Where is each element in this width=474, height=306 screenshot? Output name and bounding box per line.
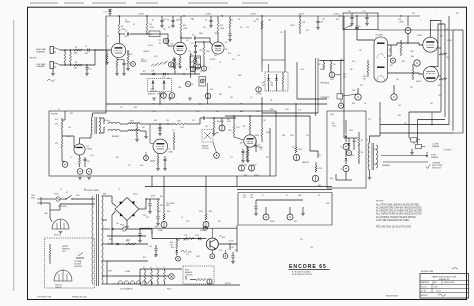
resistor R33 emitter	[79, 155, 81, 158]
svg-text:J7: J7	[262, 195, 264, 197]
jack bias test J9	[176, 256, 181, 261]
svg-text:C49: C49	[310, 247, 313, 249]
svg-text:YEL: YEL	[116, 223, 119, 225]
svg-text:F1: F1	[60, 189, 62, 191]
svg-text:+: +	[420, 19, 421, 21]
svg-text:GND LUG: GND LUG	[55, 285, 63, 287]
wire to tone stack	[197, 37, 211, 39]
transistor Q1	[74, 144, 85, 155]
capacitor C40	[232, 252, 234, 255]
capacitor C38 disc circle	[407, 16, 409, 26]
svg-text:R66: R66	[134, 107, 137, 109]
capacitor C4 cathode bypass	[122, 62, 125, 64]
svg-text:C3: C3	[340, 169, 342, 171]
svg-text:C19: C19	[68, 127, 71, 129]
tone stack resistors	[203, 46, 205, 56]
svg-text:C10: C10	[188, 51, 191, 53]
jack PI lower	[391, 94, 397, 100]
svg-text:+ C5: + C5	[103, 12, 107, 14]
wire V2 plate out	[180, 36, 182, 38]
svg-text:J7: J7	[107, 36, 109, 38]
wire filament right	[140, 275, 169, 277]
pot P4 presence	[337, 94, 343, 100]
resistor R32 47K	[61, 140, 63, 148]
svg-text:R72: R72	[456, 13, 459, 15]
wire filament bottom	[140, 284, 240, 286]
svg-text:4.7: 4.7	[70, 157, 72, 159]
resistor R28 470K	[295, 147, 297, 153]
wire T1 top	[92, 113, 94, 117]
svg-text:4700: 4700	[363, 76, 367, 78]
tone pot TREBLE	[201, 66, 206, 71]
svg-text:C24: C24	[298, 110, 301, 112]
svg-text:J8: J8	[286, 195, 288, 197]
svg-text:C17: C17	[230, 157, 233, 159]
svg-text:CR14: CR14	[126, 240, 130, 242]
pot P8	[239, 165, 245, 171]
svg-text:R42: R42	[402, 61, 405, 63]
wire recovery to grid	[186, 123, 200, 125]
svg-text:S3: S3	[318, 195, 320, 197]
wire low-gain row	[60, 64, 95, 66]
svg-text:ALL DIODES 1N4148 UNLESS NOTED: ALL DIODES 1N4148 UNLESS NOTED	[376, 216, 416, 219]
svg-text:R34: R34	[336, 19, 339, 21]
svg-text:.047: .047	[243, 197, 246, 199]
svg-text:INPUTS: INPUTS	[30, 58, 38, 60]
svg-text:R68: R68	[240, 111, 243, 113]
resistor R52	[126, 243, 136, 245]
svg-text:+: +	[345, 134, 346, 136]
svg-text:+: +	[149, 248, 150, 250]
fuse F2	[122, 227, 126, 231]
svg-text:R23: R23	[240, 104, 243, 106]
svg-text:C47: C47	[343, 74, 346, 76]
svg-text:NO. B 500653-FX (EXPORT): NO. B 500653-FX (EXPORT)	[292, 274, 313, 276]
capacitor C7 bypass	[172, 58, 175, 60]
transformer T3 core	[96, 194, 98, 286]
wire bus x452	[448, 16, 450, 125]
wire switching bus	[140, 73, 200, 75]
dashed box hum balance	[183, 266, 214, 284]
wire nest h1	[409, 111, 441, 113]
wire y161 inner	[150, 160, 155, 162]
photoresistor LDR1b	[276, 88, 278, 91]
pot P2 tone	[161, 93, 167, 99]
svg-text:PILOT: PILOT	[167, 289, 171, 291]
svg-text:R12: R12	[168, 27, 171, 29]
wire jack feeds	[409, 138, 411, 140]
svg-text:EXPORT: EXPORT	[62, 246, 68, 248]
svg-text:CR1: CR1	[151, 71, 154, 73]
capacitor C2 to ground	[86, 65, 88, 67]
pot hum circle	[390, 58, 395, 63]
svg-text:Q2: Q2	[191, 84, 193, 86]
wire reverb lines	[120, 123, 128, 125]
resistor R6 cathode	[116, 58, 118, 60]
transformer T2 core	[371, 143, 373, 170]
svg-text:R31: R31	[55, 119, 58, 121]
photoresistor LDR1	[268, 88, 270, 91]
wire T2 bottom	[369, 170, 371, 177]
svg-text:R14: R14	[220, 25, 223, 27]
slanted handwritten note	[151, 61, 168, 67]
svg-text:EFFECTS: EFFECTS	[150, 91, 157, 93]
capacitor C18	[317, 16, 319, 21]
svg-text:R48: R48	[352, 103, 355, 105]
V5 anode bar upper	[377, 43, 385, 44]
script check	[426, 164, 430, 168]
svg-text:CR16: CR16	[176, 240, 180, 242]
capacitor C20	[83, 158, 86, 160]
svg-text:C13: C13	[228, 87, 231, 89]
svg-text:.02: .02	[250, 97, 252, 99]
wire nest top corner	[453, 29, 463, 31]
svg-text:PRESENCE: PRESENCE	[321, 97, 330, 99]
capacitor C30 filter	[149, 199, 151, 203]
transformer T1 core	[94, 117, 96, 134]
wire PI plate	[356, 34, 358, 40]
svg-text:C26: C26	[306, 135, 309, 137]
svg-text:V3: V3	[225, 42, 227, 44]
svg-text:SEE NOTES: SEE NOTES	[432, 167, 441, 169]
svg-text:+430V: +430V	[333, 13, 340, 15]
V5 inner dome upper	[377, 54, 385, 58]
resistor R18 4.7K	[174, 62, 176, 70]
svg-text:OPTO: OPTO	[332, 125, 337, 127]
svg-text:SW1: SW1	[76, 195, 80, 197]
dashed box remote jack	[202, 130, 213, 143]
svg-text:REMOTE: REMOTE	[202, 146, 208, 148]
wire mid bus y186	[145, 186, 332, 188]
svg-text:8: 8	[380, 119, 381, 121]
wire row y261	[107, 260, 148, 262]
resistor R57 4.7K	[184, 237, 194, 239]
svg-text:C48: C48	[216, 111, 219, 113]
wire Q1 base	[62, 135, 74, 137]
svg-text:C37: C37	[363, 11, 366, 13]
wire x152 drop	[151, 229, 153, 239]
decoupling cap C6	[172, 16, 174, 20]
svg-text:C16: C16	[232, 59, 235, 61]
svg-text:.022: .022	[124, 36, 128, 38]
resistor R36	[136, 127, 138, 135]
tube V7 6L6GC lower	[423, 67, 438, 82]
svg-text:20MFD: 20MFD	[125, 22, 131, 24]
svg-text:R62: R62	[320, 69, 323, 71]
svg-text:R58: R58	[222, 237, 225, 239]
svg-text:R58: R58	[170, 242, 173, 244]
svg-text:.02: .02	[219, 62, 221, 64]
svg-text:9062: 9062	[434, 286, 438, 288]
svg-text:+430V: +430V	[250, 13, 257, 15]
LED CR3	[152, 82, 154, 84]
volume pot P1	[163, 38, 169, 44]
wire presence to PI	[343, 94, 359, 96]
capacitor C32	[139, 229, 141, 233]
wire jack bus	[256, 199, 303, 201]
wire x262 vertical	[261, 16, 263, 66]
svg-text:4.7: 4.7	[143, 267, 145, 269]
resistor R40	[400, 44, 402, 52]
svg-text:S2: S2	[66, 192, 68, 194]
tube V6 6L6GC upper	[423, 37, 438, 52]
V5 anode bar lower	[377, 67, 385, 68]
junction dots on rail	[118, 15, 119, 16]
svg-text:S1: S1	[150, 34, 152, 36]
fuse F1	[56, 197, 60, 201]
ground reverb jacks	[78, 177, 82, 179]
svg-text:RIW B7987187: RIW B7987187	[386, 296, 398, 298]
svg-text:C6: C6	[192, 19, 194, 21]
capacitor C15 bypass	[241, 150, 244, 152]
svg-text:C43: C43	[398, 105, 401, 107]
svg-text:R36: R36	[154, 120, 157, 122]
svg-text:SELECTOR: SELECTOR	[74, 266, 83, 268]
tube V5 phase inverter envelope	[374, 37, 388, 82]
dashed box export	[45, 238, 95, 288]
wire bias vertical x237	[236, 225, 238, 252]
svg-text:250PF: 250PF	[214, 33, 219, 35]
svg-text:.022: .022	[343, 76, 346, 78]
svg-text:(470V): (470V)	[447, 40, 452, 42]
pot P7 reverb	[219, 125, 225, 131]
capacitor C31 filter	[157, 214, 159, 216]
wire grid resistor x391	[388, 55, 392, 57]
svg-text:PULL: PULL	[141, 59, 145, 61]
svg-text:1.2: 1.2	[163, 267, 165, 269]
svg-text:R1: R1	[75, 47, 77, 49]
svg-text:SLOPE: SLOPE	[210, 59, 215, 61]
svg-text:R38: R38	[270, 109, 273, 111]
svg-text:CK. BY: CK. BY	[421, 290, 426, 292]
svg-text:T2: T2	[366, 140, 368, 142]
svg-text:4 OHM MIN: 4 OHM MIN	[432, 163, 440, 165]
resistor R4 220K plate load	[118, 23, 120, 33]
wire x107 vertical	[106, 196, 108, 261]
svg-text:C4: C4	[128, 63, 130, 65]
wire bridge + out	[139, 208, 146, 210]
svg-text:C31 20MFD: C31 20MFD	[166, 203, 176, 205]
svg-text:CR17: CR17	[196, 256, 200, 258]
resistor R54 bias	[176, 241, 178, 249]
svg-text:C16: C16	[280, 32, 283, 34]
svg-text:C36: C36	[348, 11, 351, 13]
svg-text:C40: C40	[234, 250, 237, 252]
box reverb section	[49, 111, 276, 176]
svg-text:+430V: +430V	[205, 13, 212, 15]
svg-text:ALL RESISTORS 1/4W 5% UNLESS N: ALL RESISTORS 1/4W 5% UNLESS NOTED	[376, 207, 422, 210]
wire V5 to upper 6L6 grid	[388, 43, 423, 45]
svg-text:R9 1M: R9 1M	[148, 45, 153, 47]
svg-text:T: T	[209, 68, 210, 70]
svg-text:R55: R55	[143, 257, 146, 259]
resistor R3b grid leak	[106, 54, 108, 60]
wire x380 to T2	[379, 102, 381, 112]
svg-text:C34: C34	[352, 61, 355, 63]
title block row line 1	[420, 280, 469, 282]
pot P11 hum	[207, 279, 212, 284]
svg-text:C41: C41	[154, 256, 157, 258]
script 5.1V	[181, 250, 191, 253]
svg-text:REVISED 10/84: REVISED 10/84	[421, 271, 433, 273]
tone stack caps	[194, 44, 197, 46]
svg-text:C22: C22	[292, 147, 295, 149]
wire recovery row	[152, 123, 176, 125]
svg-text:R16: R16	[228, 53, 231, 55]
AC plug	[37, 197, 41, 205]
capacitor C8 coupling	[193, 36, 195, 39]
pot reverb drive	[144, 156, 149, 161]
svg-text:LOOP: LOOP	[150, 89, 154, 91]
wire tone to V3 grid	[210, 42, 213, 45]
ground V1 cathode	[115, 73, 119, 75]
jack V1 aux	[131, 62, 136, 67]
wire y236 power row	[107, 235, 146, 237]
svg-text:600: 600	[142, 127, 145, 129]
pot P9	[161, 222, 167, 228]
jack footswitch	[214, 153, 220, 159]
svg-text:C20: C20	[87, 161, 90, 163]
wire reverb top feed	[64, 111, 66, 120]
wire nest h4	[380, 132, 453, 134]
wire join jacks	[94, 50, 96, 65]
resistor row R60-R63	[144, 271, 146, 281]
wire x106 vertical	[105, 16, 107, 104]
resistor R30	[299, 16, 301, 20]
svg-text:R64: R64	[398, 115, 401, 117]
svg-text:R20: R20	[219, 94, 222, 96]
svg-text:XMIT: XMIT	[130, 121, 134, 123]
svg-text:C14: C14	[246, 27, 249, 29]
svg-text:.02: .02	[176, 50, 178, 52]
svg-text:16: 16	[358, 145, 360, 147]
svg-text:.0047: .0047	[84, 53, 89, 55]
transformer T1 primary	[91, 117, 92, 134]
svg-text:C34: C34	[352, 90, 355, 92]
svg-text:T3: T3	[118, 189, 120, 191]
wire +430V supply rail	[106, 15, 420, 17]
wire staircase A	[310, 116, 318, 158]
wire T2 top	[370, 136, 381, 143]
diode CR10	[353, 138, 355, 142]
title block col dividers	[432, 281, 434, 285]
svg-text:C3: C3	[125, 30, 127, 32]
resistor R1 68K	[74, 49, 82, 51]
svg-text:EXT: EXT	[294, 221, 297, 223]
wire y34 bus	[147, 33, 160, 35]
transistor Q4	[206, 238, 218, 250]
svg-text:8 OHM: 8 OHM	[431, 155, 437, 157]
capacitor C24	[254, 144, 257, 146]
switch S2 power	[60, 198, 66, 200]
transformer T1 secondary	[99, 118, 100, 133]
svg-text:C10: C10	[191, 43, 194, 45]
wire reverb left	[62, 119, 65, 121]
svg-text:OUTPUTS: OUTPUTS	[444, 150, 452, 152]
svg-text:V5 12AX7: V5 12AX7	[376, 34, 384, 37]
wire row y244	[107, 243, 148, 245]
wire bus y228	[140, 227, 237, 229]
wire AC neutral	[49, 203, 51, 210]
svg-text:10MFD: 10MFD	[66, 136, 72, 138]
resistor R56	[196, 278, 206, 280]
tube V4a reverb recovery	[153, 139, 168, 154]
svg-text:4.7: 4.7	[150, 267, 152, 269]
wire filament top	[140, 268, 182, 270]
V5 inner dome lower	[377, 76, 385, 80]
capacitor C49	[155, 245, 157, 248]
svg-text:S2: S2	[84, 189, 86, 191]
wire to dome	[49, 210, 51, 218]
svg-text:R9: R9	[159, 43, 161, 45]
wire V4 row	[225, 115, 310, 117]
svg-text:C26: C26	[250, 197, 253, 199]
wire plate V6	[430, 21, 441, 38]
svg-text:+: +	[436, 13, 437, 15]
svg-text:R60: R60	[330, 178, 333, 180]
svg-text:R70: R70	[300, 239, 303, 241]
wire bus x447	[444, 24, 446, 117]
svg-text:1500: 1500	[410, 51, 414, 53]
svg-text:C30: C30	[143, 215, 146, 217]
svg-text:R53: R53	[171, 247, 174, 249]
svg-text:C27: C27	[146, 217, 149, 219]
dome export lug	[54, 270, 72, 281]
dashed box channel LED	[148, 79, 172, 92]
filament loops	[118, 281, 123, 284]
LED CR11	[345, 120, 347, 134]
svg-text:500P: 500P	[197, 58, 201, 60]
zener CR18	[176, 248, 178, 250]
title block row line 4	[420, 291, 469, 293]
svg-text:DWELL: DWELL	[254, 175, 260, 177]
resistor R export	[49, 250, 51, 258]
resistor R24 plate	[249, 116, 251, 122]
jack J7 speaker	[263, 214, 269, 220]
script note J73	[47, 79, 55, 81]
svg-text:REMOTE: REMOTE	[148, 94, 156, 96]
wire opto bottom	[336, 179, 352, 181]
choke diag	[343, 25, 352, 30]
svg-text:LDR2: LDR2	[330, 114, 334, 116]
svg-text:REVERB: REVERB	[112, 136, 119, 138]
wire bus y102	[106, 103, 327, 105]
svg-text:C28: C28	[186, 221, 189, 223]
svg-text:C1 LDR: C1 LDR	[256, 94, 262, 96]
svg-text:C50: C50	[412, 13, 415, 15]
resistor R43	[412, 68, 414, 76]
filter cap C5 top-left	[109, 13, 111, 16]
wire staircase B	[297, 62, 327, 99]
tube V1 12AX7	[111, 43, 125, 57]
wire recovery out	[214, 117, 236, 119]
wire bottom bus	[106, 261, 108, 284]
svg-text:C8: C8	[192, 34, 194, 36]
svg-text:PEAVEY ELECTRONICS CORP: PEAVEY ELECTRONICS CORP	[432, 275, 457, 278]
capacitor C26	[255, 200, 257, 206]
wire nest h2	[418, 119, 446, 121]
svg-text:CR15: CR15	[195, 235, 199, 237]
pot P10	[203, 222, 209, 228]
resistor R3 grid	[64, 53, 66, 62]
svg-text:PRINTED IN U.S.A.: PRINTED IN U.S.A.	[72, 295, 87, 298]
svg-text:PULL: PULL	[154, 56, 158, 58]
svg-text:8: 8	[358, 161, 359, 163]
svg-text:R44: R44	[167, 211, 170, 213]
wire plate V7	[431, 24, 445, 67]
svg-text:8: 8	[104, 127, 105, 129]
title block row line 2	[420, 283, 469, 285]
